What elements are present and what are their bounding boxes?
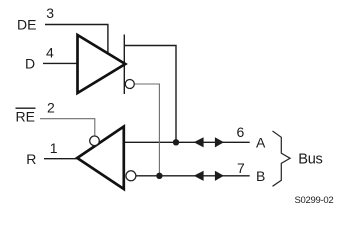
svg-text:4: 4 bbox=[46, 45, 54, 61]
svg-text:A: A bbox=[256, 135, 266, 151]
svg-text:RE: RE bbox=[16, 109, 35, 125]
svg-text:R: R bbox=[26, 151, 36, 167]
svg-text:7: 7 bbox=[237, 160, 245, 176]
svg-text:DE: DE bbox=[17, 17, 36, 33]
svg-text:S0299-02: S0299-02 bbox=[295, 195, 334, 206]
svg-text:B: B bbox=[256, 168, 265, 184]
svg-text:3: 3 bbox=[46, 5, 54, 21]
svg-text:2: 2 bbox=[47, 100, 55, 116]
svg-text:1: 1 bbox=[50, 140, 58, 156]
svg-text:6: 6 bbox=[237, 124, 245, 140]
svg-text:Bus: Bus bbox=[298, 152, 322, 168]
svg-text:D: D bbox=[25, 55, 35, 71]
